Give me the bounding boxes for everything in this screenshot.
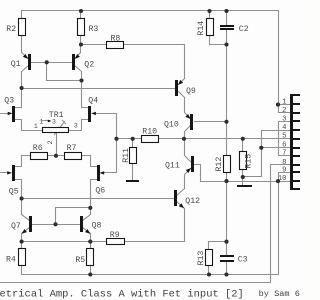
- svg-text:R8: R8: [111, 34, 121, 43]
- svg-text:Q4: Q4: [88, 97, 98, 106]
- svg-text:R14: R14: [197, 21, 206, 36]
- svg-text:R5: R5: [75, 256, 85, 265]
- svg-text:Q12: Q12: [185, 197, 200, 206]
- svg-text:3: 3: [282, 116, 286, 124]
- svg-text:2: 2: [47, 140, 55, 144]
- svg-text:R4: R4: [6, 256, 16, 265]
- svg-text:Q7: Q7: [11, 222, 21, 231]
- svg-text:Q1: Q1: [11, 60, 21, 69]
- svg-text:R9: R9: [110, 231, 120, 240]
- svg-text:3: 3: [74, 123, 78, 131]
- svg-text:10: 10: [278, 175, 287, 183]
- svg-text:Q2: Q2: [84, 61, 94, 70]
- svg-text:by Sam 60: by Sam 60: [259, 289, 300, 299]
- svg-text:R3: R3: [89, 25, 99, 34]
- svg-text:Q8: Q8: [92, 221, 102, 230]
- svg-text:7: 7: [282, 150, 286, 158]
- svg-text:R13: R13: [197, 251, 206, 266]
- svg-text:5: 5: [282, 133, 286, 141]
- svg-text:C2: C2: [239, 25, 249, 34]
- svg-text:Q11: Q11: [165, 161, 180, 170]
- svg-text:Q10: Q10: [164, 120, 179, 129]
- svg-text:R12: R12: [215, 157, 224, 172]
- svg-text:Q5: Q5: [9, 187, 19, 196]
- svg-text:3: 3: [52, 118, 56, 126]
- svg-text:9: 9: [282, 167, 286, 175]
- svg-text:R15: R15: [245, 154, 254, 169]
- svg-text:1: 1: [34, 123, 38, 131]
- svg-text:1: 1: [39, 118, 43, 126]
- svg-text:2: 2: [282, 107, 286, 115]
- svg-text:R11: R11: [122, 148, 131, 163]
- svg-text:Q6: Q6: [95, 187, 105, 196]
- svg-text:1: 1: [282, 99, 286, 107]
- svg-text:6: 6: [282, 142, 286, 150]
- svg-text:etrical Amp. Class A with Fet: etrical Amp. Class A with Fet input [2]: [0, 288, 244, 300]
- svg-text:R2: R2: [6, 25, 16, 34]
- svg-text:4: 4: [282, 124, 286, 132]
- svg-text:Q3: Q3: [4, 97, 14, 106]
- svg-text:C3: C3: [238, 255, 248, 264]
- svg-text:R6: R6: [33, 144, 43, 153]
- svg-text:Q9: Q9: [186, 87, 196, 96]
- svg-text:R7: R7: [67, 144, 77, 153]
- svg-text:R10: R10: [142, 128, 157, 137]
